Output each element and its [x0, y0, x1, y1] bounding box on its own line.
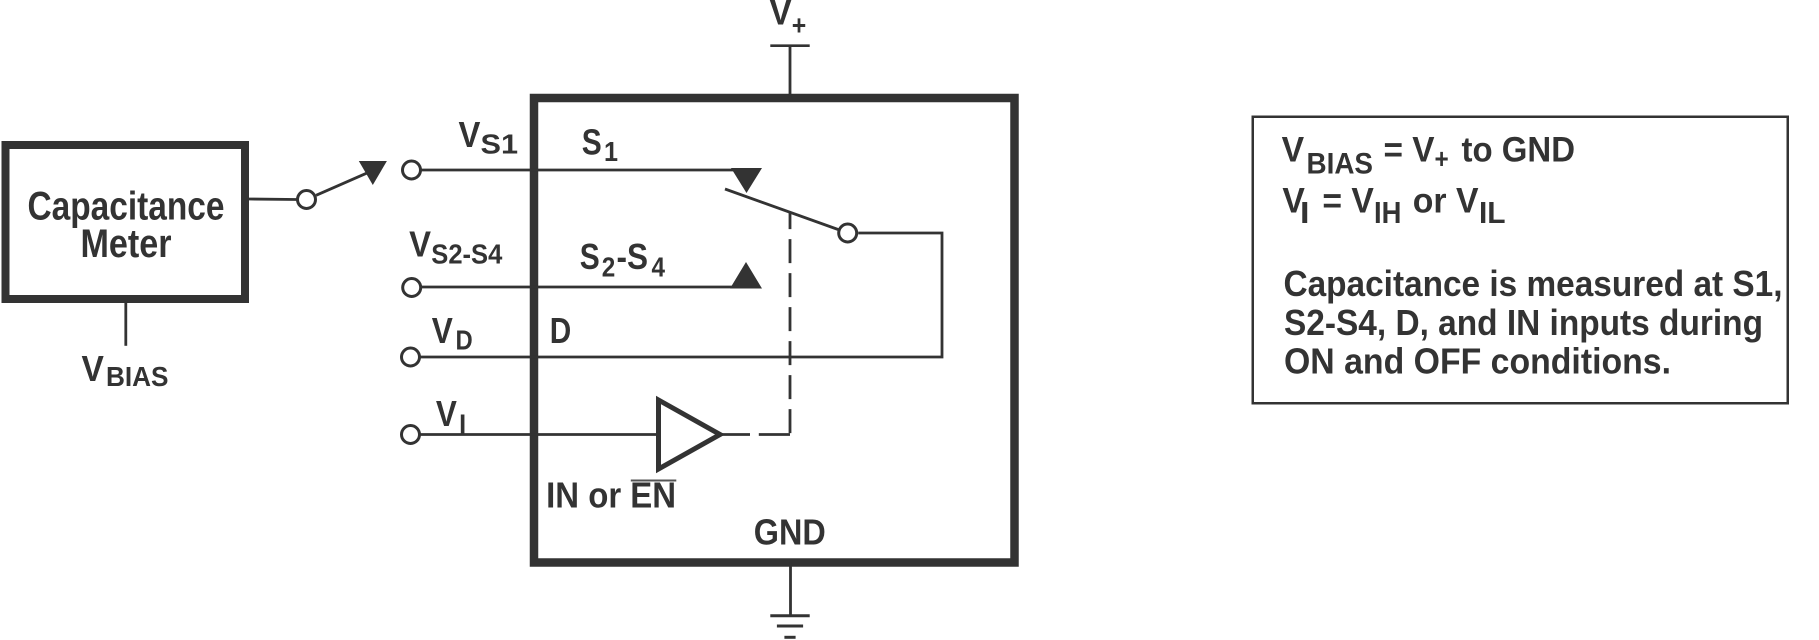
- svg-text:= V: = V: [1322, 181, 1374, 221]
- svg-text:+: +: [792, 10, 807, 41]
- svg-text:S: S: [582, 122, 602, 163]
- svg-text:V: V: [409, 223, 431, 264]
- svg-text:S2-S4: S2-S4: [431, 238, 502, 269]
- svg-text:V: V: [1282, 130, 1305, 170]
- svg-text:V: V: [459, 114, 481, 155]
- svg-text:S: S: [580, 236, 600, 277]
- svg-text:IL: IL: [1479, 195, 1506, 230]
- svg-text:V: V: [769, 0, 792, 33]
- svg-text:V: V: [82, 348, 105, 389]
- svg-text:GND: GND: [754, 512, 826, 553]
- svg-text:IH: IH: [1374, 195, 1401, 230]
- svg-text:to GND: to GND: [1462, 130, 1576, 170]
- svg-text:S2-S4, D, and IN inputs during: S2-S4, D, and IN inputs during: [1284, 302, 1763, 343]
- svg-text:1: 1: [604, 136, 618, 167]
- svg-text:+: +: [1435, 143, 1449, 174]
- svg-text:2: 2: [602, 252, 616, 283]
- svg-text:BIAS: BIAS: [106, 361, 169, 392]
- svg-text:Capacitance is measured at S1,: Capacitance is measured at S1,: [1284, 263, 1783, 304]
- svg-text:D: D: [456, 325, 473, 356]
- svg-text:I: I: [1300, 195, 1310, 230]
- svg-text:V: V: [432, 310, 454, 351]
- svg-text:-S: -S: [617, 236, 649, 277]
- svg-text:D: D: [550, 310, 572, 351]
- svg-text:I: I: [459, 408, 466, 439]
- svg-text:ON and OFF conditions.: ON and OFF conditions.: [1284, 340, 1671, 381]
- svg-text:V: V: [436, 393, 458, 434]
- svg-text:= V: = V: [1384, 130, 1435, 170]
- svg-text:S1: S1: [481, 129, 519, 160]
- svg-text:Meter: Meter: [81, 222, 172, 266]
- svg-text:or V: or V: [1413, 181, 1479, 221]
- svg-text:BIAS: BIAS: [1307, 147, 1374, 180]
- svg-text:4: 4: [652, 252, 666, 283]
